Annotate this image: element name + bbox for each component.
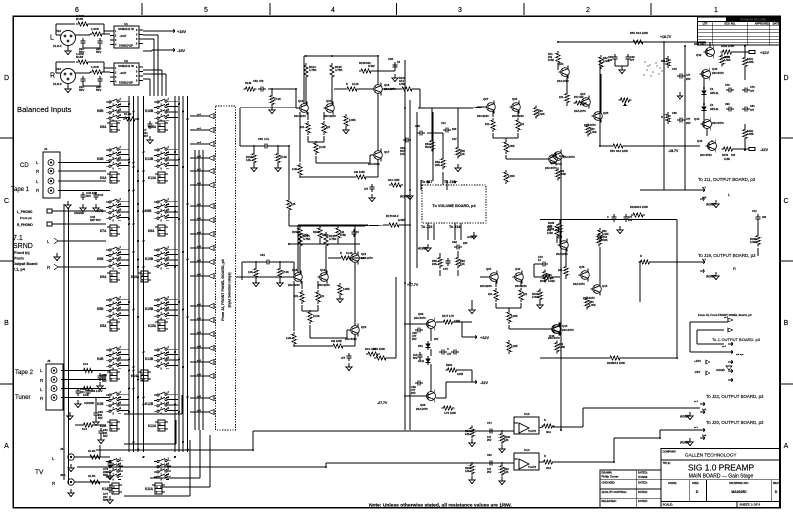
svg-text:+27.7V: +27.7V <box>407 283 419 287</box>
relay contact K19B pole 4 <box>154 265 157 267</box>
svg-text:33.0 1/4W: 33.0 1/4W <box>613 361 625 365</box>
svg-text:477: 477 <box>630 59 635 62</box>
relay contact K8B pole 4 <box>154 217 157 219</box>
svg-text:25V: 25V <box>411 391 416 395</box>
relay coil K6A <box>110 121 117 132</box>
resistor R138 3.32K <box>756 234 760 247</box>
svg-text:AGND: AGND <box>706 275 716 279</box>
svg-text:C: C <box>4 198 9 205</box>
resistor R?? 10.0K <box>123 117 137 121</box>
svg-text:To J20, OUTPUT BOARD, p3: To J20, OUTPUT BOARD, p3 <box>706 420 764 425</box>
svg-text:7/13/99: 7/13/99 <box>638 475 648 479</box>
resistor R41 202 1/4W <box>555 224 559 238</box>
resistor R 2.29K <box>507 340 511 354</box>
wire <box>505 138 507 140</box>
resistor R107 2.00K <box>538 289 542 302</box>
revision record table <box>698 17 781 45</box>
svg-text:+OUT: +OUT <box>120 34 127 38</box>
capacitor C68 <box>87 388 89 391</box>
terminal arrow <box>700 269 704 273</box>
svg-text:2SC3470: 2SC3470 <box>712 121 724 125</box>
transistor Q16 2SA1370 <box>374 85 383 94</box>
capacitor C41 22P <box>82 76 84 79</box>
svg-text:R: R <box>340 252 342 255</box>
resistor R?? 10.0K tuner L <box>82 387 95 391</box>
svg-text:-15V: -15V <box>177 49 185 53</box>
svg-text:2SC3470: 2SC3470 <box>563 155 575 159</box>
svg-text:K2A: K2A <box>100 424 107 428</box>
wire <box>75 34 90 36</box>
svg-text:47.0K: 47.0K <box>282 270 289 274</box>
svg-text:J12: J12 <box>56 29 61 33</box>
resistor R168 33.0 1/4W <box>608 356 622 360</box>
ground AGND <box>427 244 429 248</box>
svg-text:HZ5-2L: HZ5-2L <box>710 107 719 111</box>
capacitor C41 22P <box>82 38 84 41</box>
capacitor C62 50V <box>403 139 406 141</box>
resistor R?? 12K <box>254 267 258 280</box>
resistor R 221 <box>494 288 498 302</box>
svg-text:4.75K: 4.75K <box>309 68 316 72</box>
wire <box>241 262 243 280</box>
RCA jack pin 3 <box>51 386 57 392</box>
svg-text:2.29K: 2.29K <box>511 345 518 348</box>
relay contact K6B pole 4 <box>106 117 109 119</box>
svg-text:12K: 12K <box>465 470 470 473</box>
svg-text:104: 104 <box>400 152 405 156</box>
svg-text:REV:: REV: <box>773 481 780 485</box>
svg-text:Q40: Q40 <box>694 117 700 121</box>
resistor R62 3.32K <box>598 228 602 242</box>
relay contact K3B pole 2 <box>106 154 109 156</box>
resistor R50 5.32K <box>534 106 538 119</box>
transistor Q39 2SC3470 <box>427 320 436 329</box>
resistor R64 221 <box>564 265 568 278</box>
svg-text:(ret): (ret) <box>702 196 707 199</box>
svg-text:D: D <box>775 490 778 494</box>
terminal to front panel board <box>208 360 214 365</box>
svg-text:QUALITY CONTROL:: QUALITY CONTROL: <box>602 490 628 494</box>
terminal to front panel board <box>208 204 214 209</box>
wire <box>556 163 561 165</box>
resistor R 221 <box>516 118 520 132</box>
svg-text:12K: 12K <box>246 158 251 162</box>
resistor R?? 354 <box>666 56 670 68</box>
relay coil K15A <box>158 320 165 331</box>
relay contact K7B pole 1 <box>106 201 109 203</box>
relay contact K12B pole 1 <box>154 394 157 396</box>
transistor Q38 2SA1370 <box>427 392 436 401</box>
svg-text:3.32K: 3.32K <box>750 241 757 244</box>
wire <box>582 408 584 427</box>
capacitor C77 221 50V <box>109 485 111 488</box>
svg-text:ECO NO.: ECO NO. <box>725 22 736 26</box>
wire <box>377 93 379 151</box>
svg-text:0.05K: 0.05K <box>747 61 754 64</box>
svg-text:C78: C78 <box>725 84 730 87</box>
resistor R182 0.05K <box>743 128 747 141</box>
diode D?? zener <box>427 341 429 344</box>
ground <box>621 66 623 70</box>
ground <box>56 253 58 257</box>
terminal -15V <box>170 48 175 52</box>
svg-text:221: 221 <box>485 123 490 126</box>
resistor R 342 1/4W <box>354 175 368 179</box>
ground <box>348 363 350 367</box>
transistor Q46 2SC3470 <box>702 70 711 79</box>
wire <box>690 321 728 323</box>
relay contact K2B pole 2 <box>106 399 109 401</box>
svg-text:U14: U14 <box>524 448 530 452</box>
svg-text:DATE: DATE <box>773 22 780 26</box>
svg-text:4: 4 <box>331 7 335 14</box>
svg-text:221: 221 <box>300 126 305 129</box>
svg-text:Q45: Q45 <box>579 265 585 269</box>
wire <box>355 224 368 226</box>
svg-text:2SC3470: 2SC3470 <box>712 71 724 75</box>
svg-text:477: 477 <box>686 73 691 77</box>
resistor R 342 1/4W <box>331 344 345 348</box>
svg-text:1.00K: 1.00K <box>724 59 731 62</box>
svg-text:K16B: K16B <box>145 109 154 113</box>
capacitor C60 15 100V <box>394 62 396 65</box>
ground <box>339 295 341 299</box>
svg-text:2.00K: 2.00K <box>532 296 539 299</box>
wire <box>360 225 388 226</box>
ground <box>69 412 71 416</box>
svg-text:2SC3470: 2SC3470 <box>562 328 574 332</box>
svg-text:-15V: -15V <box>694 370 700 374</box>
wire <box>307 112 309 120</box>
wire <box>436 321 443 323</box>
svg-text:221: 221 <box>294 295 299 298</box>
relay contact K16B pole 2 <box>154 106 157 108</box>
ground <box>67 47 69 51</box>
capacitor C?? <box>451 351 454 353</box>
wire <box>124 443 176 445</box>
wire <box>404 60 406 430</box>
connector J6A TV R jack <box>68 479 74 485</box>
svg-text:5: 5 <box>204 7 208 14</box>
relay contact K16B pole 3 <box>154 112 157 114</box>
wire <box>354 262 356 326</box>
resistor R166 12K <box>470 426 474 439</box>
svg-text:2SA1370: 2SA1370 <box>574 109 586 113</box>
wire <box>77 466 326 468</box>
svg-text:Z4: Z4 <box>710 103 714 107</box>
svg-text:476: 476 <box>259 79 264 83</box>
RCA jack pin 2 <box>48 168 54 174</box>
resistor R99 12K <box>500 464 504 477</box>
transistor Q30 2SC2240 <box>512 103 521 112</box>
relay contact K1B pole 1 <box>106 461 109 463</box>
resistor R?? 202 1/4W <box>556 168 560 181</box>
svg-text:C68 140V: C68 140V <box>90 389 103 393</box>
svg-text:221: 221 <box>520 123 525 126</box>
connector to volume board (dashed box) <box>422 185 486 223</box>
svg-text:221: 221 <box>559 96 564 99</box>
ground AGND <box>689 412 691 416</box>
capacitor C44 <box>95 192 97 195</box>
svg-text:A: A <box>111 124 113 127</box>
svg-text:K6A: K6A <box>100 125 107 129</box>
terminal -32V <box>472 380 477 384</box>
svg-text:K2B: K2B <box>97 402 104 406</box>
svg-text:K8B: K8B <box>145 209 152 213</box>
terminal arrow <box>728 360 733 364</box>
wire <box>559 233 561 243</box>
transistor Q24 2SA1370 <box>582 98 591 107</box>
relay contact K3B pole 3 <box>106 160 109 162</box>
transistor Q15 2SC2240 <box>326 104 335 113</box>
capacitor C64 4.7u <box>264 261 267 263</box>
relay coil K4A <box>110 370 117 381</box>
transistor Q40 2SC3470 <box>703 120 712 129</box>
svg-text:Q19: Q19 <box>320 268 326 272</box>
resistor R104 33.0 1/4W <box>631 213 645 217</box>
wire <box>70 210 106 212</box>
resistor R158 1.00K <box>76 22 90 26</box>
resistor R56 22K <box>438 256 442 269</box>
svg-text:DATED:: DATED: <box>638 490 648 494</box>
svg-text:Q17: Q17 <box>384 150 390 154</box>
svg-text:A: A <box>111 175 113 178</box>
wire bus <box>174 96 176 452</box>
svg-text:C: C <box>783 198 788 205</box>
svg-text:R: R <box>346 83 348 86</box>
relay contact K4B pole 4 <box>106 365 109 367</box>
svg-text:50V: 50V <box>103 434 108 438</box>
svg-text:1/4W: 1/4W <box>548 59 554 62</box>
svg-text:6.65K: 6.65K <box>508 145 515 148</box>
relay coil K14A <box>141 370 148 381</box>
svg-text:(ret): (ret) <box>702 408 707 411</box>
relay contact K4B pole 1 <box>106 349 109 351</box>
svg-text:Q40: Q40 <box>515 267 521 271</box>
svg-text:(From: (From <box>13 257 24 261</box>
resistor R 6.65K <box>507 310 511 324</box>
terminal to front panel board <box>208 183 214 188</box>
wire <box>96 449 253 451</box>
relay contact K9B pole 4 <box>106 265 109 267</box>
svg-text:TL072: TL072 <box>528 429 537 433</box>
wire bus <box>128 96 130 452</box>
relay contact K11B pole 2 <box>154 466 157 468</box>
svg-text:-27.7V: -27.7V <box>377 401 388 405</box>
svg-text:10.2K: 10.2K <box>346 252 353 255</box>
capacitor C80 477 <box>677 119 680 121</box>
svg-text:AGND: AGND <box>706 203 716 207</box>
svg-text:-18.7V: -18.7V <box>668 149 679 153</box>
resistor R167 12K <box>470 463 474 476</box>
relay coil K9A <box>110 271 117 282</box>
transistor Q47 2SA1370 <box>560 241 569 250</box>
svg-text:R160: R160 <box>313 231 320 234</box>
wire <box>492 111 494 117</box>
ground <box>70 489 72 493</box>
relay coil K8A <box>158 225 165 236</box>
svg-text:100: 100 <box>731 154 736 157</box>
wire <box>640 189 700 191</box>
svg-text:1/4W: 1/4W <box>547 232 553 235</box>
svg-text:2.2K: 2.2K <box>292 168 297 171</box>
relay contact K9B pole 3 <box>106 260 109 262</box>
op-amp U2 SSM2141 diff receiver <box>114 63 139 85</box>
ground <box>619 226 621 230</box>
svg-text:26V: 26V <box>434 338 439 341</box>
resistor R62 3.32K <box>599 55 603 69</box>
wire <box>69 370 110 372</box>
wire <box>374 357 376 359</box>
svg-text:SSM2141P: SSM2141P <box>119 81 133 85</box>
resistor R166 33.0 1/4W <box>374 356 388 360</box>
resistor R 33.0 1/4W <box>366 352 380 356</box>
terminal L_PHONO <box>47 209 52 213</box>
svg-text:K3B: K3B <box>97 157 104 161</box>
relay coil K19A <box>141 271 148 282</box>
svg-text:22P 50V: 22P 50V <box>90 218 101 222</box>
svg-text:220: 220 <box>463 241 468 245</box>
wire <box>90 61 104 63</box>
svg-text:2SC2240: 2SC2240 <box>477 114 489 118</box>
resistor R 2.29K <box>504 170 508 184</box>
capacitor C76 221 50V <box>109 460 111 463</box>
svg-text:SRND: SRND <box>13 243 33 250</box>
svg-text:477: 477 <box>750 90 755 93</box>
capacitor C79 477 25V <box>677 75 680 77</box>
transistor Q48 2SC3470 <box>553 325 562 334</box>
ground <box>471 306 473 310</box>
capacitor C <box>371 184 373 187</box>
svg-text:4.75K: 4.75K <box>335 68 342 72</box>
svg-text:ant eye: ant eye <box>736 353 744 356</box>
svg-text:K1A: K1A <box>102 487 109 491</box>
resistor R 6.65K <box>344 114 348 128</box>
terminal to front panel board <box>208 260 214 265</box>
terminal arrow J15 <box>453 181 457 184</box>
RCA jack pin 2 <box>51 377 57 383</box>
resistor R200 1/2W <box>446 368 459 372</box>
wire <box>477 106 487 108</box>
resistor R156 1.00K <box>76 60 90 64</box>
wire <box>508 308 510 310</box>
svg-text:6: 6 <box>75 7 79 14</box>
svg-text:HZ5-2L: HZ5-2L <box>710 91 719 95</box>
svg-text:DRAWING NO:: DRAWING NO: <box>729 481 748 485</box>
relay contact K15B pole 4 <box>154 315 157 317</box>
capacitor C74 107 25V <box>487 430 490 432</box>
resistor R?? 10.0K TV L <box>88 455 102 459</box>
relay coil K2A <box>110 420 117 431</box>
svg-text:K6B: K6B <box>97 109 104 113</box>
svg-text:Output Board: Output Board <box>13 262 38 266</box>
svg-text:50V: 50V <box>96 50 101 54</box>
wire <box>240 107 296 109</box>
svg-text:TV: TV <box>35 469 44 476</box>
svg-text:To J15: To J15 <box>444 180 455 184</box>
relay contact K12B pole 3 <box>154 405 157 407</box>
svg-text:49.9: 49.9 <box>546 431 551 434</box>
svg-text:1.00K: 1.00K <box>91 65 100 69</box>
svg-text:B: B <box>784 320 789 327</box>
svg-text:K13A: K13A <box>148 176 157 180</box>
svg-text:R: R <box>544 419 546 422</box>
svg-text:B: B <box>4 320 9 327</box>
wire <box>354 334 356 346</box>
capacitor C90 221 50V <box>95 410 97 413</box>
resistor R168 165 <box>287 198 291 212</box>
svg-text:C75: C75 <box>443 267 448 271</box>
svg-text:12K: 12K <box>460 262 465 266</box>
svg-text:2.2K: 2.2K <box>286 337 291 340</box>
grid tick marks right <box>780 137 793 139</box>
resistor R160 1.00K <box>90 32 104 36</box>
svg-text:22K: 22K <box>432 262 437 266</box>
svg-text:From p1: From p1 <box>20 216 32 220</box>
svg-text:A: A <box>159 124 161 127</box>
relay contact K5B pole 2 <box>106 304 109 306</box>
capacitor C70 104 50V <box>419 352 421 355</box>
resistor R?? 47.0K <box>276 152 280 165</box>
svg-text:100: 100 <box>608 59 613 62</box>
relay contact K19B pole 3 <box>154 260 157 262</box>
resistor R162 1/4W 100 <box>721 50 734 54</box>
wire <box>416 112 418 268</box>
svg-text:16.5K: 16.5K <box>319 146 326 149</box>
svg-text:J13: J13 <box>56 67 61 71</box>
ground <box>277 164 279 168</box>
resistor R150 47.0K <box>270 94 274 107</box>
wire <box>309 325 311 338</box>
wire <box>377 159 379 177</box>
relay contact K11B pole 1 <box>154 461 157 463</box>
svg-text:2SC4793: 2SC4793 <box>700 153 712 157</box>
wire <box>160 486 210 488</box>
relay contact K13B pole 1 <box>154 149 157 151</box>
svg-text:220: 220 <box>762 216 767 219</box>
capacitor C66 221 <box>77 388 79 391</box>
svg-text:2.29K: 2.29K <box>508 175 515 178</box>
svg-text:1/4W: 1/4W <box>559 346 565 349</box>
svg-text:C56: C56 <box>258 137 263 141</box>
relay coil K12A <box>158 420 165 431</box>
terminal arrow <box>700 260 705 264</box>
ground <box>109 496 111 500</box>
svg-text:Q42: Q42 <box>696 53 702 57</box>
svg-text:From J2, FRONT PANEL BOARD, p3: From J2, FRONT PANEL BOARD, p3 <box>221 259 225 321</box>
resistor R 16.5K <box>314 141 318 155</box>
svg-text:2SA1370: 2SA1370 <box>573 282 585 286</box>
svg-text:1/2W: 1/2W <box>457 372 464 376</box>
resistor R 6.65K <box>504 140 508 154</box>
wire <box>239 108 241 146</box>
svg-text:4.7u: 4.7u <box>264 137 270 141</box>
svg-text:477: 477 <box>750 109 755 112</box>
svg-text:Z1: Z1 <box>710 87 714 91</box>
svg-text:25V: 25V <box>487 471 492 474</box>
svg-text:Q44: Q44 <box>602 284 608 288</box>
terminal arrow J17 <box>426 181 430 184</box>
svg-text:DATED:: DATED: <box>638 499 648 503</box>
relay coil K1A <box>112 483 119 494</box>
svg-text:10.0K: 10.0K <box>124 112 131 116</box>
relay contact K14B pole 4 <box>154 365 157 367</box>
svg-text:AGND: AGND <box>400 195 410 199</box>
relay contact K6B pole 1 <box>106 101 109 103</box>
svg-text:221: 221 <box>523 293 528 296</box>
RCA jack pin 4 <box>48 188 54 194</box>
svg-text:50V: 50V <box>86 194 91 198</box>
